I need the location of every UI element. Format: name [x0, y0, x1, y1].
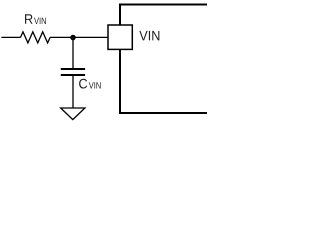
pin box VIN: [108, 25, 132, 49]
capacitor CVIN bottom plate: [61, 74, 85, 76]
label RVIN subscript: [34, 18, 46, 24]
wire capacitor to ground: [72, 75, 74, 108]
capacitor CVIN top plate: [61, 68, 85, 70]
wire input lead: [1, 36, 20, 38]
pin label VIN: [139, 31, 159, 40]
ground: [61, 108, 85, 120]
node junction: [70, 35, 76, 41]
label CVIN main C: [79, 79, 87, 89]
IC outline: [120, 5, 207, 114]
label CVIN subscript: [89, 82, 101, 88]
wire junction to capacitor: [72, 38, 74, 69]
resistor RVIN: [21, 32, 51, 43]
wire resistor to pin: [50, 36, 108, 38]
label RVIN main R: [25, 14, 33, 23]
